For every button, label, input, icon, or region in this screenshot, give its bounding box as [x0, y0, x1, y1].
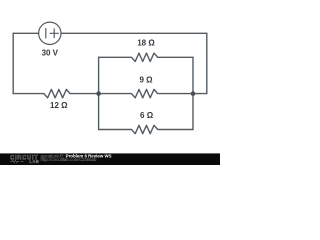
wire top from source to right rail [61, 32, 207, 34]
resistor R2 12ohm [13, 89, 98, 97]
resistor R4 6ohm [99, 125, 193, 133]
wire top left from source to left rail [13, 32, 38, 34]
wire inner right vertical node B [192, 57, 194, 129]
voltage source V1 30V [39, 22, 61, 44]
wire right stub middle row [193, 93, 207, 95]
resistor R3 9ohm [99, 89, 193, 97]
svg-text:9 Ω: 9 Ω [139, 75, 153, 84]
junction node right [191, 91, 196, 96]
circuitlab logo [10, 156, 39, 164]
svg-text:6 Ω: 6 Ω [140, 111, 154, 120]
resistor R1 18ohm [99, 53, 193, 61]
wire left rail vertical [12, 33, 14, 93]
svg-text:12 Ω: 12 Ω [50, 101, 68, 110]
wire inner left vertical node A [98, 57, 100, 129]
wire right rail vertical [206, 33, 208, 93]
svg-text:18 Ω: 18 Ω [137, 39, 155, 48]
svg-text:http://circuitlab.com/c2365ab: http://circuitlab.com/c2365ab [41, 157, 97, 162]
junction node left [96, 91, 101, 96]
svg-text:30 V: 30 V [42, 49, 59, 58]
watermark bar [0, 153, 220, 165]
